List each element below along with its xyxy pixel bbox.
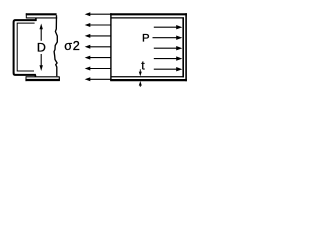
svg-text:D: D xyxy=(37,41,46,55)
shell top inner line (left piece) xyxy=(26,17,57,19)
cylinder right wall inner xyxy=(182,17,184,77)
pressure arrow 1 xyxy=(154,25,183,29)
pressure arrow 3 xyxy=(154,46,183,50)
sigma2 stress arrow 6 xyxy=(85,67,111,71)
pressure arrow 2 xyxy=(153,36,183,40)
D dimension lower shaft xyxy=(40,54,42,66)
thickness arrow upper (points down to wall) xyxy=(139,69,142,76)
svg-text:t: t xyxy=(141,58,145,72)
cylinder top wall outer xyxy=(110,13,187,15)
cap rim step top xyxy=(35,18,37,21)
shell bottom end tick xyxy=(25,76,27,81)
cap outer contour xyxy=(14,20,37,75)
D dimension top arrowhead xyxy=(40,24,43,30)
cap rim step bottom xyxy=(34,75,36,77)
shell bottom inner line (left piece) xyxy=(26,76,59,78)
shell bottom right end tick xyxy=(58,76,60,81)
sigma2 stress arrow 3 xyxy=(85,34,111,38)
sigma2 stress arrow 7 xyxy=(85,77,111,81)
break wave xyxy=(54,15,57,76)
svg-text:P: P xyxy=(142,33,150,45)
cylinder cut face line xyxy=(110,13,112,81)
sigma2 stress arrow 4 xyxy=(85,45,111,49)
thickness arrow lower (points up to wall) xyxy=(139,81,142,87)
svg-text:σ2: σ2 xyxy=(64,39,80,53)
shell top end tick xyxy=(25,13,27,18)
sigma2 stress arrow 2 xyxy=(85,23,111,27)
cap inner contour xyxy=(17,23,34,71)
pressure arrow 5 xyxy=(154,67,183,71)
pressure arrow 4 xyxy=(154,56,183,60)
cylinder bottom wall inner xyxy=(111,76,184,78)
shell bottom outer line (left piece) xyxy=(25,79,59,81)
D dimension upper shaft xyxy=(40,29,42,41)
cylinder right wall outer xyxy=(185,13,187,81)
sigma2 stress arrow 1 xyxy=(85,12,111,16)
D dimension bottom arrowhead xyxy=(40,65,43,71)
shell top outer line (left piece) xyxy=(26,13,57,15)
sigma2 stress arrow 5 xyxy=(85,56,111,60)
cylinder top wall inner xyxy=(111,17,184,19)
cylinder bottom wall outer xyxy=(110,79,187,81)
